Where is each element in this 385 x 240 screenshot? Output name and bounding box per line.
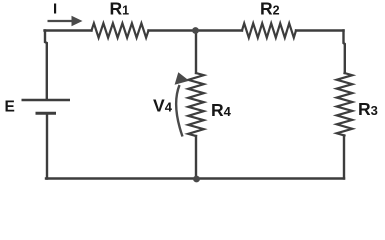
resistor R1: [92, 23, 149, 37]
wire top-left segment: [45, 29, 92, 31]
voltage arrow V4: [175, 72, 190, 136]
svg-text:E: E: [5, 99, 15, 116]
current arrow I: [48, 16, 83, 26]
svg-text:V4: V4: [153, 96, 173, 116]
wire bottom: [46, 177, 344, 179]
battery E top plate: [22, 99, 71, 102]
svg-text:R2: R2: [260, 0, 280, 19]
wire middle vertical upper: [195, 31, 197, 74]
battery E bottom plate: [36, 112, 57, 115]
wire left vertical lower: [46, 115, 48, 179]
node junction bottom: [193, 176, 200, 183]
wire right vertical lower: [343, 136, 345, 179]
wire right vertical upper: [344, 31, 345, 74]
resistor R2: [242, 23, 296, 37]
node junction top: [192, 27, 199, 34]
svg-text:I: I: [53, 1, 57, 18]
resistor R4: [188, 73, 204, 136]
resistor R3: [337, 73, 353, 136]
wire top-right segment: [296, 29, 344, 31]
svg-text:R4: R4: [211, 100, 232, 120]
wire middle vertical lower: [195, 136, 197, 179]
svg-text:R1: R1: [110, 0, 130, 19]
svg-text:R3: R3: [358, 99, 378, 119]
wire top-middle segment: [149, 29, 243, 31]
wire left vertical upper: [45, 31, 47, 100]
